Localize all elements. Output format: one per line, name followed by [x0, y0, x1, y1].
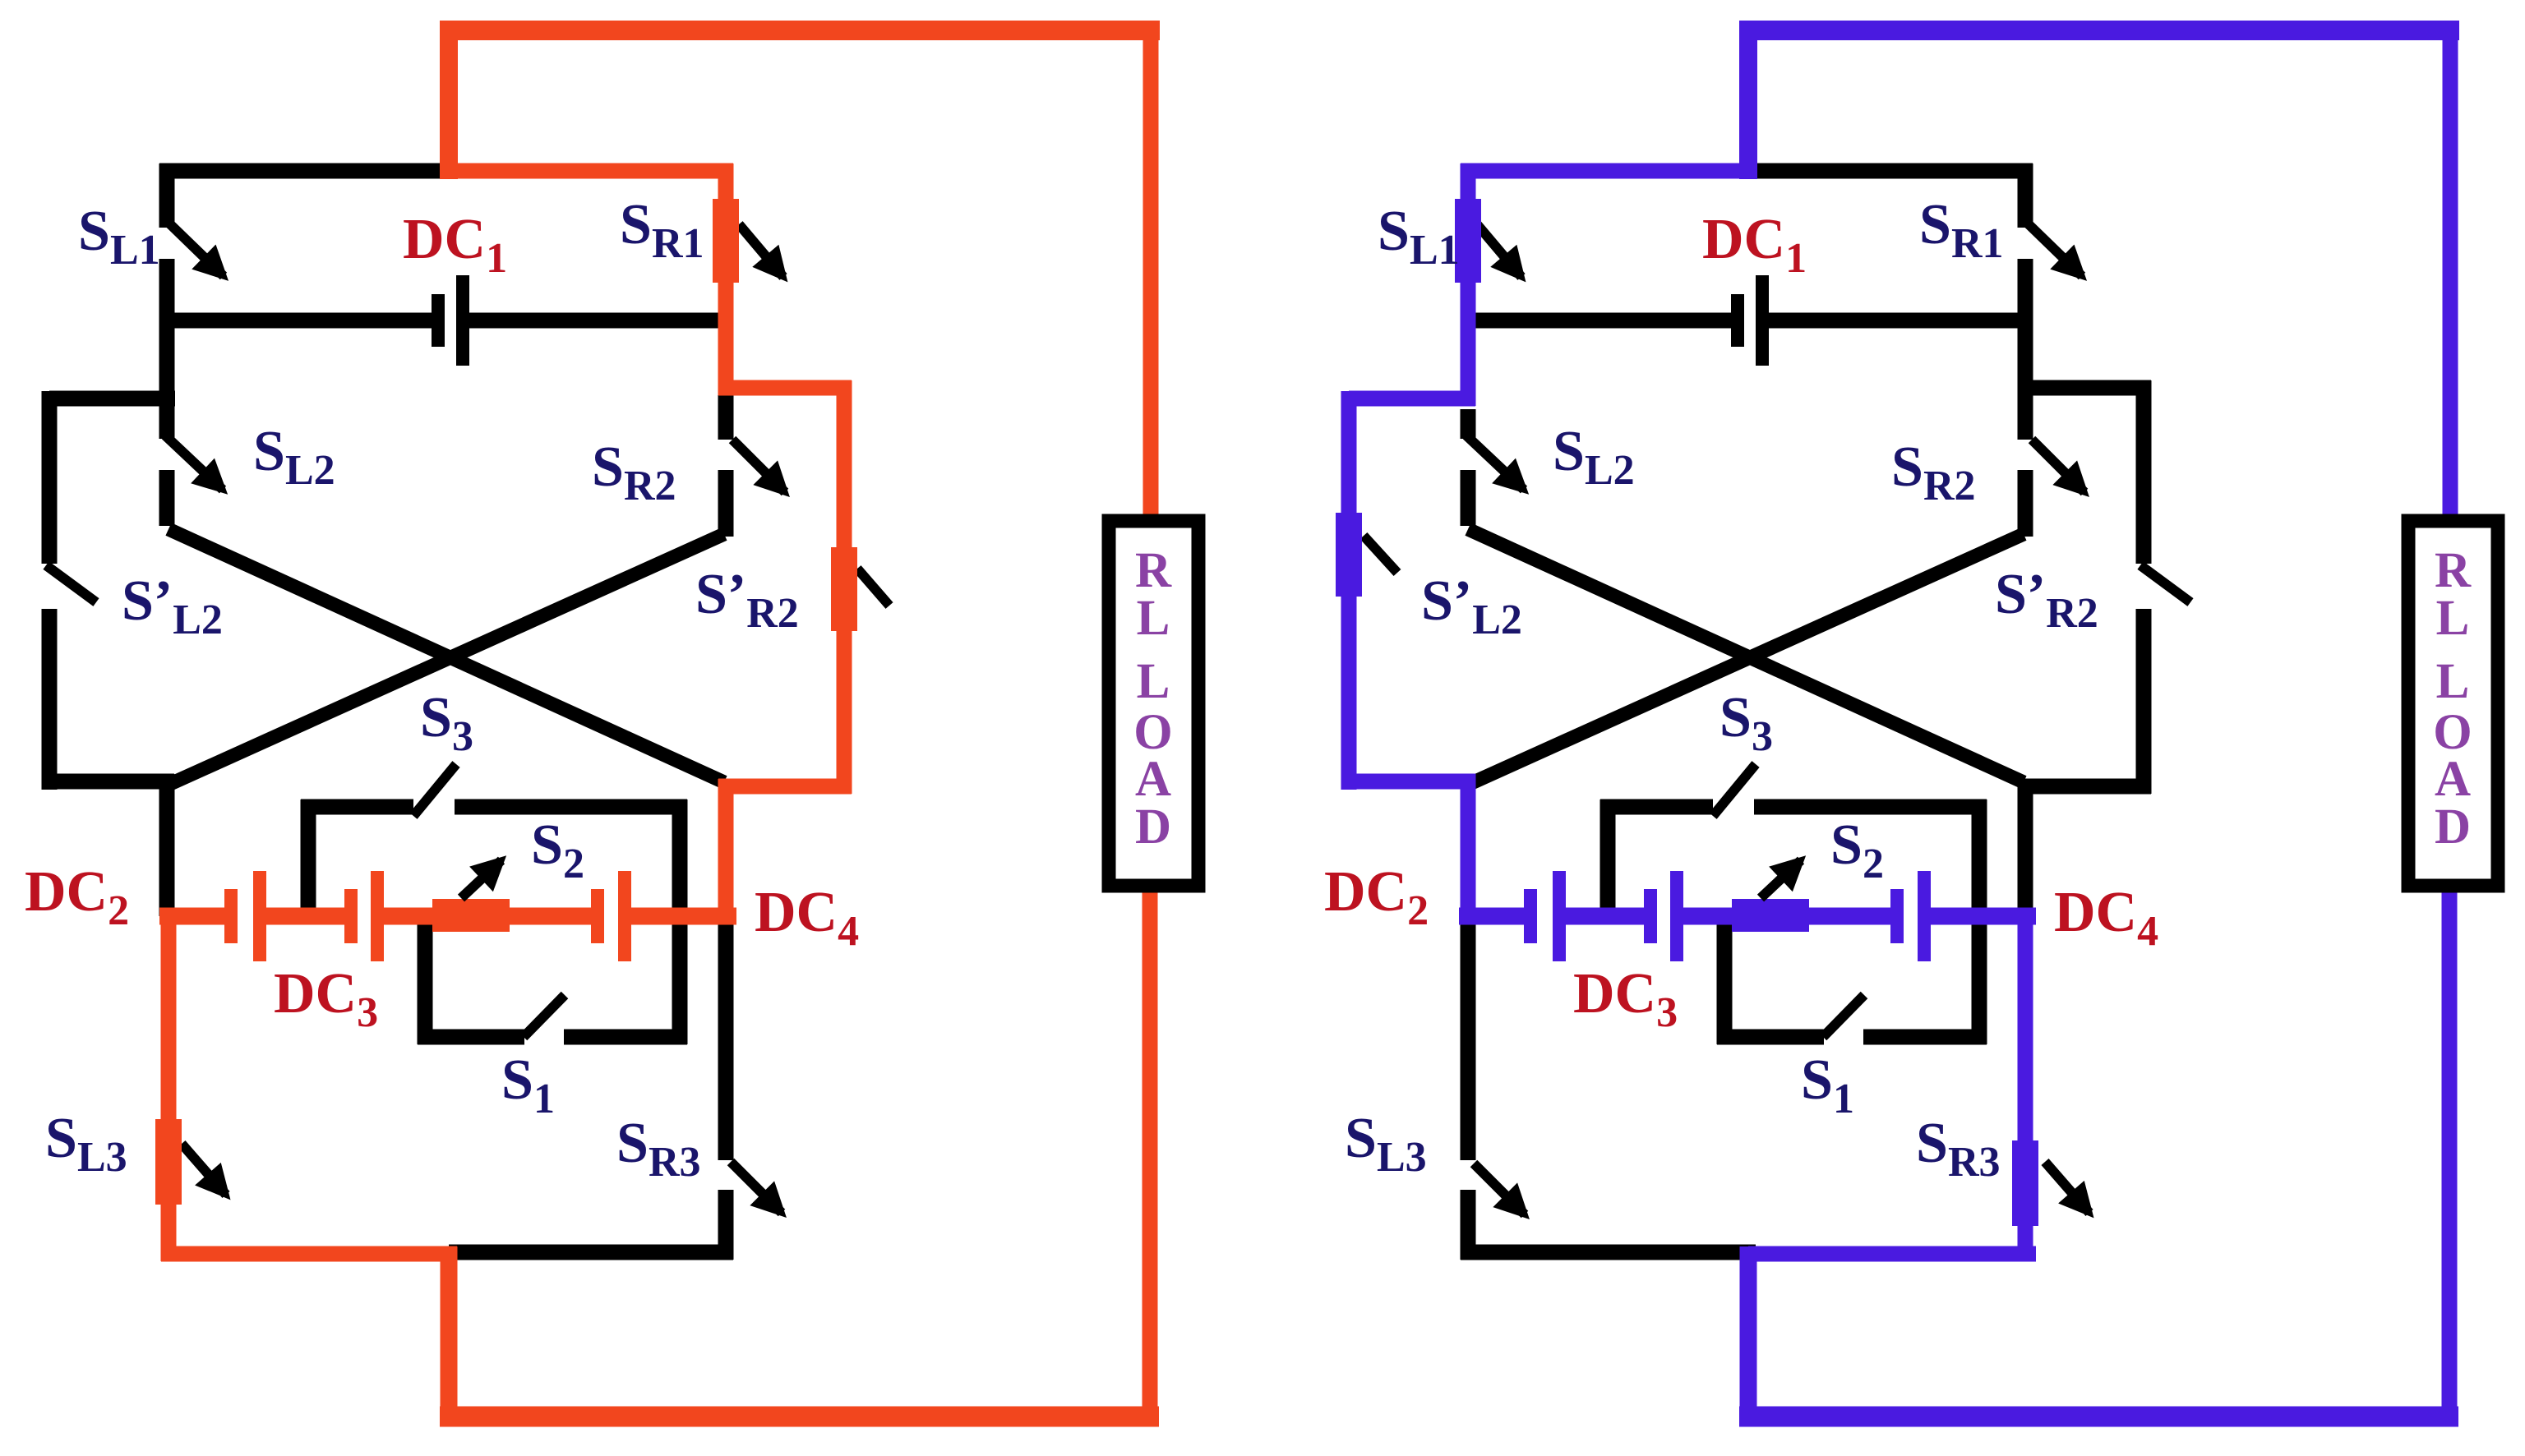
svg-text:A: A [1135, 752, 1171, 807]
svg-text:A: A [2435, 752, 2471, 807]
svg-text:L: L [1137, 591, 1170, 646]
svg-text:L: L [2436, 654, 2470, 709]
svg-text:L: L [1137, 654, 1170, 709]
svg-text:L: L [2436, 591, 2470, 646]
svg-text:D: D [1135, 799, 1171, 855]
svg-text:D: D [2435, 799, 2471, 855]
svg-text:R: R [2435, 543, 2472, 598]
svg-text:R: R [1135, 543, 1172, 598]
